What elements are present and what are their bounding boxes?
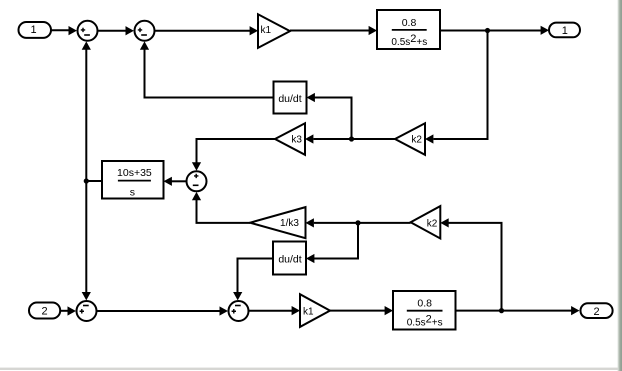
arrowhead into S5 left	[220, 306, 228, 315]
arrowhead into du/dt (upper)	[307, 93, 315, 102]
window right edge band	[618, 0, 622, 371]
transfer function TF3 (10s+35)/s (flipped)	[102, 161, 164, 199]
wire k2 to k3 with junction	[314, 138, 396, 140]
svg-text:k1: k1	[261, 25, 272, 36]
wire TF3 output to branch junction	[86, 180, 102, 182]
junction on feedback vertical	[84, 178, 89, 183]
svg-text:0.8: 0.8	[402, 17, 417, 29]
arrowhead into k1	[250, 26, 258, 35]
wire S3 output to TF3	[171, 180, 186, 182]
svg-text:1: 1	[562, 25, 568, 37]
gain 1/k3 (flipped, wide)	[250, 207, 306, 238]
wire port2 to S4	[60, 310, 69, 312]
output port 1	[549, 23, 580, 38]
arrowhead into S1 left	[69, 26, 77, 35]
wire k3 output left and down into S3 top	[197, 139, 276, 164]
svg-text:2: 2	[41, 306, 47, 318]
junction at TF2 output	[499, 308, 504, 313]
arrowhead into S4 left	[68, 306, 76, 315]
arrowhead into S2 bottom	[140, 41, 149, 49]
wire TF1 to out port 1	[440, 30, 543, 32]
derivative du/dt (upper)	[274, 82, 307, 114]
sum S4	[77, 301, 97, 321]
svg-text:k3: k3	[291, 135, 302, 146]
svg-text:du/dt: du/dt	[278, 93, 301, 105]
arrowhead into S4 top	[82, 292, 91, 300]
arrowhead into S2 left	[126, 26, 134, 35]
arrowhead into TF3 right edge	[164, 177, 172, 186]
arrowhead into k2 (upper)	[425, 134, 433, 143]
wire junction down to du/dt (lower)	[314, 223, 359, 259]
arrowhead into k3	[305, 134, 313, 143]
wire TF2 to out port 2	[456, 310, 573, 312]
wire S5 to gain k1 (lower)	[249, 310, 293, 312]
sum S3	[187, 171, 207, 191]
arrowhead into S3 bottom	[192, 192, 201, 200]
output port 2	[581, 303, 613, 318]
wire 1/k3 output left and up into S3 bottom	[197, 199, 251, 223]
input port 1	[19, 22, 52, 38]
svg-text:2: 2	[593, 306, 599, 318]
arrowhead into TF1	[369, 26, 377, 35]
arrowhead into k2 (lower)	[440, 218, 448, 227]
arrowhead into TF2	[385, 306, 393, 315]
gain k2 (upper, flipped)	[395, 123, 425, 155]
arrowhead into S5 top	[233, 292, 242, 300]
gain k3 (flipped)	[275, 123, 305, 155]
junction at TF1 output	[485, 28, 490, 33]
wire port1 to sum S1	[51, 29, 70, 31]
arrowhead into S3 top	[192, 162, 201, 170]
arrowhead into du/dt (lower)	[306, 254, 314, 263]
wire feedback vertical from TF1 junction down to k2	[434, 31, 488, 140]
svg-text:k2: k2	[427, 219, 438, 230]
svg-text:10s+35: 10s+35	[117, 167, 152, 179]
transfer function TF1 0.8/(0.5s^2+s)	[377, 10, 440, 49]
wire du/dt output left and up into S2 bottom	[145, 49, 274, 98]
wire S4 to S5	[97, 310, 221, 312]
wire from lower TF junction up to k2 (lower)	[448, 223, 502, 311]
arrowhead into S1 bottom	[82, 41, 91, 49]
gain k1 (top)	[258, 14, 290, 48]
wire S1 to S2	[98, 30, 126, 32]
junction on k2-k3 wire	[349, 136, 354, 141]
sum S1	[78, 21, 98, 41]
feedback vertical down to S4 top	[85, 181, 87, 294]
wire k1 to TF1	[290, 30, 371, 32]
wire junction up to du/dt (upper)	[314, 98, 352, 140]
arrowhead into out port 2	[571, 306, 579, 315]
svg-text:du/dt: du/dt	[278, 254, 301, 266]
svg-text:0.8: 0.8	[417, 298, 432, 310]
wire k1 (lower) to TF2	[330, 310, 387, 312]
input port 2	[29, 303, 60, 319]
derivative du/dt (lower)	[273, 242, 306, 275]
sum S2	[135, 21, 155, 41]
wire du/dt (lower) output left and down into S5 top	[238, 259, 274, 294]
sum S5	[229, 301, 249, 321]
arrowhead into out port 1	[541, 26, 549, 35]
svg-text:1: 1	[30, 24, 36, 36]
arrowhead into 1/k3	[306, 218, 314, 227]
wire S2 to gain k1	[155, 30, 251, 32]
transfer function TF2 0.8/(0.5s^2+s)	[393, 291, 456, 330]
gain k1 (lower)	[300, 294, 330, 327]
svg-text:s: s	[130, 186, 135, 198]
svg-text:1/k3: 1/k3	[280, 218, 299, 229]
junction on that wire	[355, 220, 360, 225]
wire k2 (lower) to 1/k3	[314, 222, 411, 224]
svg-text:k1: k1	[303, 307, 314, 318]
svg-text:k2: k2	[411, 135, 422, 146]
arrowhead into k1 (lower)	[292, 306, 300, 315]
window bottom edge band	[0, 368, 618, 370]
gain k2 (lower, flipped)	[411, 206, 441, 238]
feedback vertical up to S1 bottom	[85, 49, 87, 182]
